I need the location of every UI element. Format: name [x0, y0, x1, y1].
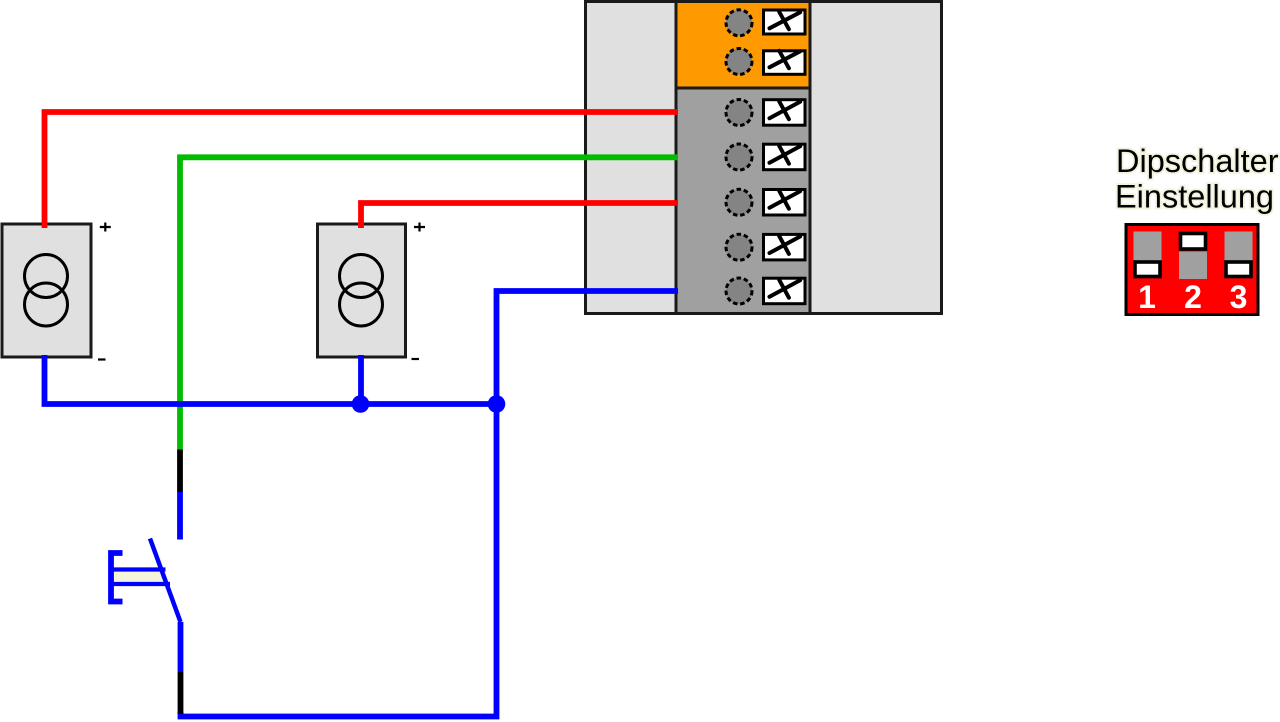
wire blue from terminal 7 to node B — [497, 291, 679, 404]
wire blue from G2 - to node A — [358, 355, 364, 404]
switch S1 blade — [150, 539, 181, 623]
wire green from terminal 4 to switch S1 — [180, 157, 678, 449]
switch S1 actuator fill — [112, 572, 163, 583]
switch S1 actuator rod lower — [111, 582, 170, 586]
terminal block gray column — [676, 2, 810, 314]
DIP switch SW1 pos3 actuator — [1226, 262, 1251, 277]
svg-text:2: 2 — [1184, 279, 1202, 315]
terminal 3 — [726, 100, 805, 126]
terminal 6 — [726, 234, 805, 260]
wire black switch S1 lower terminal — [178, 672, 184, 714]
wire black switch S1 upper terminal — [177, 450, 183, 493]
DIP switch SW1 pos3 channel — [1225, 232, 1253, 261]
G1 plus label — [100, 223, 111, 232]
wire red from G1 + to terminal 3 — [45, 112, 679, 228]
DIP switch SW1 pos1 actuator — [1135, 262, 1160, 277]
svg-text:Dipschalter: Dipschalter — [1116, 143, 1279, 179]
node B junction dot — [488, 395, 506, 413]
terminal 2 — [726, 49, 805, 75]
G2 minus label — [412, 358, 420, 360]
terminal 1 — [726, 10, 805, 36]
power supply G2 body — [318, 224, 406, 357]
switch S1 actuator bracket — [111, 553, 123, 602]
power supply G1 body — [2, 224, 91, 357]
DIP switch SW1 body — [1126, 225, 1258, 315]
svg-text:Einstellung: Einstellung — [1115, 179, 1274, 215]
G2 plus label — [414, 223, 425, 232]
power supply G1 symbol circle upper — [25, 255, 68, 298]
svg-text:1: 1 — [1138, 279, 1156, 315]
terminal block orange section — [676, 2, 810, 89]
G1 minus label — [98, 358, 106, 360]
terminal 4 — [726, 144, 805, 170]
terminal 7 — [726, 278, 805, 304]
wire blue switch S1 lower lead — [178, 622, 184, 672]
power supply G2 symbol circle upper — [340, 255, 383, 298]
wire blue bottom loop node B to switch S1 lower — [181, 404, 497, 717]
switch S1 actuator rod upper — [111, 567, 166, 571]
wire red from G2 + to terminal 5 — [361, 203, 678, 228]
power supply G1 symbol circle lower — [25, 283, 68, 326]
svg-text:3: 3 — [1230, 279, 1248, 315]
DIP switch SW1 pos2 actuator — [1181, 234, 1206, 250]
wire blue negative bus from G1 - to node B — [45, 355, 497, 404]
terminal 5 — [726, 189, 805, 215]
terminal block X1 body — [586, 2, 942, 314]
power supply G2 symbol circle lower — [340, 283, 383, 326]
DIP switch SW1 pos1 channel — [1134, 232, 1162, 261]
wire blue switch S1 upper lead — [177, 492, 183, 540]
node A junction dot — [352, 395, 370, 413]
DIP switch SW1 pos2 channel — [1179, 252, 1207, 280]
